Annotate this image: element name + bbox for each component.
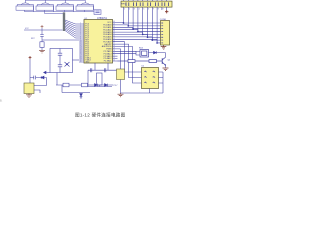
svg-text:10: 10 (80, 41, 82, 43)
wire fan from bus to U1 left pins (65, 20, 79, 38)
diode D5 down (80, 94, 83, 99)
display digit DS4 (76, 6, 94, 10)
U2 internal glyphs (144, 71, 155, 84)
wire grid horizontals U1 P0 to J1 (118, 23, 161, 43)
wire grid verticals from RP1 (124, 10, 158, 43)
J1 internal pin marks (161, 23, 163, 43)
capacitor C4 (90, 68, 92, 72)
resistor R6 (118, 60, 150, 63)
diode D2 (41, 76, 44, 79)
wire to buzzer terminals (118, 51, 141, 55)
capacitor C3 (58, 65, 62, 67)
diode D4 (105, 84, 108, 87)
svg-text:33: 33 (113, 38, 115, 40)
diode D3 (95, 84, 98, 87)
svg-text:12: 12 (80, 45, 82, 47)
svg-text:29: 29 (113, 48, 115, 50)
ground (Q5) (163, 68, 169, 71)
bus (thick gray) (63, 12, 65, 31)
svg-text:14: 14 (80, 49, 82, 51)
sounder LS2 (yellow) (24, 83, 34, 94)
display digit DS1 (16, 6, 34, 10)
capacitor C1 (reset) (40, 35, 44, 37)
U1 left pin numbers (80, 23, 82, 63)
display digit DS2 (36, 6, 54, 10)
bottom cluster wire (56, 85, 113, 93)
svg-text:8: 8 (158, 9, 159, 11)
ground (reset) (39, 50, 45, 53)
svg-text:24: 24 (113, 60, 115, 62)
transistor Q2 (37, 0, 53, 12)
svg-text:37: 37 (113, 28, 115, 30)
wire sounder vertical (30, 59, 47, 85)
wire P2.2 to U2 pin3 (118, 47, 142, 84)
ground (sounder) (26, 94, 32, 98)
crystal loop wires (50, 49, 79, 73)
RP1 pin dashes (126, 2, 169, 6)
connector J1 (161, 21, 170, 46)
svg-text:27: 27 (113, 52, 115, 54)
ground (J1) (161, 45, 167, 49)
wire R1 to ground (41, 40, 43, 50)
U1 right pin numbers (113, 21, 115, 62)
wire from C1 to RST node (42, 36, 79, 40)
svg-text:1: 1 (124, 9, 125, 11)
svg-text:2: 2 (129, 9, 130, 11)
svg-text:18: 18 (80, 57, 82, 59)
rail end label box (94, 10, 101, 15)
resistor R2 (base) (149, 60, 162, 63)
ground (U2 rail) (118, 93, 124, 97)
display digit DS3 (56, 6, 74, 10)
resistor R3 vertical (97, 73, 103, 85)
buzzer LS1 (140, 50, 149, 58)
svg-text:15: 15 (80, 51, 82, 53)
svg-text:35: 35 (113, 33, 115, 35)
wire xtal area below U1 (88, 63, 117, 70)
U1 right pin names (102, 22, 112, 63)
optocoupler U2 (142, 68, 159, 89)
U1 left pin names (85, 24, 91, 64)
transistor Q1 (17, 0, 33, 12)
power +5V symbol (reset) (41, 25, 44, 28)
svg-text:P2.3/A11: P2.3/A11 (104, 60, 112, 63)
svg-text:5: 5 (143, 9, 144, 11)
svg-text:40: 40 (113, 21, 115, 23)
wire buzzer to Q5 collector (149, 53, 166, 58)
wire P2.0 to U2 pin1 (118, 42, 142, 72)
svg-text:P3.7: P3.7 (114, 85, 118, 87)
crystal X1 (65, 62, 70, 67)
svg-text:25: 25 (113, 57, 115, 59)
svg-text:30: 30 (113, 45, 115, 47)
svg-text:AT89C51: AT89C51 (97, 17, 108, 20)
wire Q5 emitter to ground (165, 65, 167, 68)
svg-text:17: 17 (80, 55, 82, 57)
LS2 pins (34, 86, 40, 94)
svg-text:28: 28 (113, 50, 115, 52)
capacitor C6 (34, 76, 36, 80)
wire P2.1 to U2 pin2 (118, 44, 142, 77)
U2 right pin stubs (121, 72, 164, 93)
svg-text:6: 6 (148, 9, 149, 11)
wire rail A under displays (25, 10, 95, 12)
power +5V symbol (sounder) (29, 56, 32, 59)
svg-text:36: 36 (113, 31, 115, 33)
wire P2.3 to ground rail (118, 49, 121, 93)
wire loop to bottom cluster (56, 73, 58, 86)
wire VCC horizontal (24, 28, 63, 35)
svg-text:9: 9 (163, 9, 164, 11)
wire rail B under displays (45, 10, 64, 13)
transistor Q4 (77, 0, 93, 10)
svg-text:32: 32 (113, 40, 115, 42)
svg-text:38: 38 (113, 26, 115, 28)
U1 left pin stubs (79, 24, 84, 62)
RP1 pin numbers (124, 9, 163, 11)
svg-text:20: 20 (80, 61, 82, 63)
capacitor C5 (104, 68, 106, 72)
transistor Q5 (162, 57, 165, 65)
svg-text:13: 13 (80, 47, 82, 49)
svg-text:图1-12 硬件连接电路图: 图1-12 硬件连接电路图 (75, 112, 126, 119)
wire under xtal area (88, 70, 112, 86)
svg-text:39: 39 (113, 24, 115, 26)
U1 right pin stubs (113, 23, 118, 62)
power +5V symbol (RP1 common) (165, 10, 168, 13)
svg-text:4: 4 (139, 9, 140, 11)
svg-text:3: 3 (134, 9, 135, 11)
diode D1 (154, 51, 157, 54)
RP1 top cropped text marks (124, 0, 167, 2)
svg-text:B.: B. (0, 99, 3, 102)
transistor Q3 (57, 0, 73, 12)
svg-text:GND: GND (85, 62, 90, 64)
resistor pack RP1 (121, 1, 172, 7)
crystal X2 (yellow) (117, 69, 125, 80)
MCU U1 AT89C51 (84, 20, 113, 64)
resistor R4 (63, 83, 69, 87)
svg-text:16: 16 (80, 53, 82, 55)
resistor R5 (82, 83, 88, 87)
top VCC rail (25, 0, 85, 1)
svg-text:26: 26 (113, 55, 115, 57)
net arrow left of loop (44, 71, 50, 74)
junction dots on grid (123, 22, 158, 44)
svg-text:7: 7 (153, 9, 154, 11)
RP1 pin stubs (124, 7, 167, 10)
svg-text:34: 34 (113, 36, 115, 38)
svg-text:11: 11 (80, 43, 82, 45)
resistor R1 (reset) (40, 42, 44, 48)
svg-text:19: 19 (80, 59, 82, 61)
capacitor C2 (58, 53, 62, 55)
svg-text:CON8: CON8 (160, 19, 167, 21)
svg-text:31: 31 (113, 43, 115, 45)
